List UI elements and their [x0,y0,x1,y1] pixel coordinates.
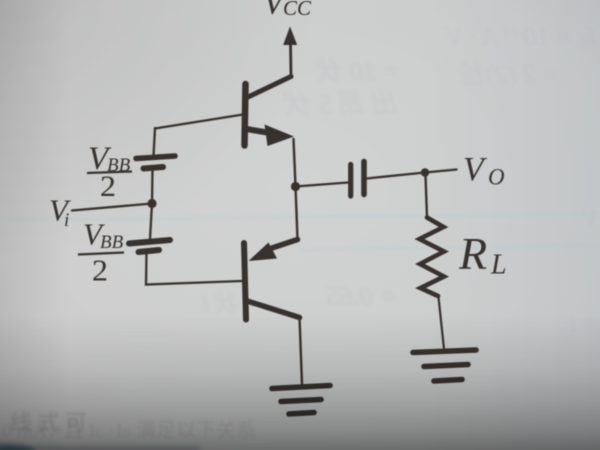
transistor Q1 emitter lead [247,129,274,134]
ground (below Q2) line 1 [272,386,330,389]
transistor Q2 collector lead [246,301,300,318]
transistor Q1 (NPN) base bar [245,84,246,146]
wire: VCC lead [289,43,292,77]
capacitor C right plate [361,162,367,195]
VCC arrowhead [283,27,297,46]
fraction bar lower [78,253,124,255]
battery VBB/2 upper: short plate [144,167,164,169]
wire: node to capacitor [296,183,349,187]
faint ruled blue lines [0,214,600,250]
node: VO junction dot [421,168,429,176]
ground (below RL) line 1 [413,350,476,353]
wire: rail Vi node to lower battery [150,204,152,240]
ground (below Q2) line 2 [281,400,321,402]
wire: emitter rail down through output node [294,139,298,240]
ground (below Q2) line 3 [289,413,314,415]
battery VBB/2 lower: long plate [129,240,170,244]
transistor Q1 collector lead [247,77,291,98]
node: output junction dot [291,182,300,191]
transistor Q2 (PNP) base bar [244,243,246,320]
node: Vi junction dot [147,199,156,208]
wire: VO node down to resistor [426,175,428,218]
battery VBB/2 lower: short plate [139,250,160,252]
transistor Q2 emitter arrow (PNP, pointing in) [249,243,278,262]
wire: collector down to ground [300,318,303,385]
wire: rail battery to Vi node [151,169,154,204]
wire: VO stub [425,170,457,173]
resistor RL zigzag [420,218,445,297]
wire: left rail above upper battery [154,128,156,156]
ground (below RL) line 3 [434,380,462,382]
battery VBB/2 upper: long plate [136,156,175,159]
wire: left rail below lower battery [146,253,242,285]
wire: Vi input lead [72,204,152,211]
wire: capacitor to VO node [367,173,426,179]
bottom-left dark teal corner [0,444,200,450]
faint bleed-through text (back of page, mirrored) [201,22,598,335]
ground (below RL) line 2 [424,365,468,367]
fraction bar upper [87,172,132,174]
capacitor C left plate [348,165,353,197]
wire: resistor to ground [439,297,445,349]
transistor Q1 emitter arrow (NPN, pointing out) [265,125,295,147]
wire: NPN base lead from left rail [155,115,243,129]
transistor Q2 emitter lead [272,240,298,249]
bottom band faint text [2,419,256,442]
